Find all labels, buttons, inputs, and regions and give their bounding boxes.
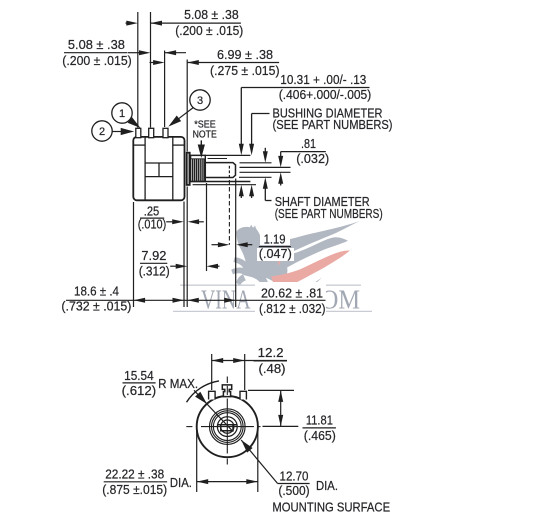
bushing top extension — [191, 154, 251, 156]
svg-text:6.99 ± .38: 6.99 ± .38 — [217, 47, 273, 62]
see note arrow — [200, 140, 202, 146]
red accent near chest — [273, 240, 287, 266]
svg-text:20.62 ± .81: 20.62 ± .81 — [261, 286, 323, 301]
watermark rule bottom — [173, 310, 372, 312]
svg-text:(.032): (.032) — [296, 151, 329, 166]
svg-text:12.2: 12.2 — [258, 345, 284, 360]
10.31 dim verticals and arrows — [240, 88, 242, 146]
12.2 dimension line — [212, 360, 287, 362]
12.70 leader — [241, 440, 277, 484]
10.31 bracket line — [241, 87, 369, 89]
main circle — [197, 396, 258, 457]
svg-text:18.6 ± .4: 18.6 ± .4 — [74, 284, 119, 298]
slot depth dashed extension — [228, 180, 230, 245]
svg-text:3: 3 — [197, 95, 203, 107]
horse body — [231, 225, 292, 300]
svg-text:(.200 ± .015): (.200 ± .015) — [62, 53, 132, 68]
svg-text:(.047): (.047) — [259, 246, 292, 261]
svg-text:(.500): (.500) — [278, 483, 309, 498]
R max arc — [187, 381, 220, 402]
key tab — [222, 385, 231, 397]
svg-text:(.200 ± .015): (.200 ± .015) — [175, 23, 243, 38]
wing swoosh red — [271, 250, 350, 293]
lower extension lines — [133, 202, 135, 307]
svg-text:1: 1 — [119, 108, 125, 120]
right tab — [240, 391, 246, 399]
wing swoosh 1 (gray top) — [261, 221, 360, 262]
svg-text:(SEE PART NUMBERS): (SEE PART NUMBERS) — [273, 117, 393, 132]
.25 dimension — [140, 217, 164, 219]
svg-text:(.612): (.612) — [122, 383, 157, 398]
strap cut left — [133, 144, 145, 146]
svg-text:(.010): (.010) — [138, 217, 167, 232]
extension lines from pins up — [137, 12, 139, 128]
bushing bottom extension — [191, 181, 251, 183]
7.92 dimension — [140, 262, 167, 264]
shaft bottom extension — [239, 176, 272, 178]
svg-text:DIA.: DIA. — [316, 478, 338, 493]
top dimension row 3 : 6.99 between C and bushing face — [150, 62, 154, 64]
svg-text:2: 2 — [99, 126, 105, 138]
shaft slot — [217, 424, 237, 426]
body right strap — [172, 137, 174, 200]
watermark rule top — [180, 284, 361, 286]
bushing diameter bracket — [252, 113, 270, 115]
shaft diameter leader arrows — [264, 148, 266, 153]
leader circle 1 — [112, 103, 132, 123]
svg-text:5.08 ± .38: 5.08 ± .38 — [68, 37, 125, 52]
svg-text:(.406+.000/-.005): (.406+.000/-.005) — [279, 87, 372, 102]
watermark pegasus logo — [173, 221, 372, 315]
left tab — [209, 391, 216, 399]
leader circle 3 — [190, 90, 210, 110]
1.19 dimension — [212, 244, 219, 246]
body outline — [133, 137, 184, 200]
thin gray swoosh under red — [290, 278, 322, 300]
center window top — [145, 162, 173, 164]
terminal pin 3 — [163, 128, 168, 137]
extension lines right of bushing/shaft — [191, 155, 291, 184]
svg-text:.81: .81 — [301, 136, 316, 151]
svg-text:12.70: 12.70 — [280, 468, 309, 483]
svg-text:(.812 ± .032): (.812 ± .032) — [259, 301, 326, 316]
centerline vertical — [226, 377, 228, 465]
11.81 bottom extension — [263, 425, 299, 427]
shaft top extension — [240, 162, 272, 164]
svg-text:R MAX.: R MAX. — [158, 376, 198, 391]
bottom dimension row 18.6 / 20.62 — [66, 299, 326, 301]
svg-text:22.22 ± .38: 22.22 ± .38 — [105, 467, 164, 482]
R max leader — [194, 390, 233, 431]
svg-text:1.19: 1.19 — [264, 231, 286, 246]
bushing diameter leader arrows — [251, 114, 253, 146]
white mask under 1.19 text — [260, 231, 290, 245]
svg-text:(.48): (.48) — [259, 361, 286, 376]
svg-text:(.732 ± .015): (.732 ± .015) — [61, 300, 131, 314]
top dimension row 1 : 5.08 between lines A-B — [126, 22, 129, 24]
bushing rings — [210, 409, 246, 445]
svg-text:MOUNTING SURFACE: MOUNTING SURFACE — [272, 500, 390, 515]
center window divider — [158, 163, 160, 177]
lower dimension extension — [193, 184, 256, 186]
face plate — [186, 152, 191, 186]
shaft — [205, 163, 235, 178]
22.22 dimension line — [197, 481, 258, 483]
potentiometer body (side view) — [133, 137, 184, 200]
threaded bushing — [191, 155, 227, 181]
svg-text:(.465): (.465) — [304, 428, 336, 443]
22.22 extension lines — [196, 430, 198, 493]
strap cut right — [173, 144, 185, 146]
svg-text:5.08 ± .38: 5.08 ± .38 — [184, 7, 239, 22]
svg-text:(.875 ±.015): (.875 ±.015) — [102, 482, 167, 497]
wing swoosh 2 (gray) — [264, 237, 348, 274]
svg-text:11.81: 11.81 — [306, 413, 333, 428]
front view fraction bars — [254, 360, 288, 362]
svg-text:7.92: 7.92 — [141, 248, 166, 263]
svg-text:NOTE: NOTE — [193, 129, 217, 141]
11.81 dimension line — [280, 390, 282, 426]
svg-text:10.31 + .00/- .13: 10.31 + .00/- .13 — [280, 72, 366, 87]
terminal pin 1 — [136, 128, 141, 137]
bushing face extension up — [186, 60, 188, 152]
terminal pin 2 — [149, 128, 154, 137]
.81 fraction bar — [297, 151, 326, 153]
svg-text:15.54: 15.54 — [124, 368, 154, 383]
11.81 top extension — [248, 389, 294, 391]
top dimension row 2 : 5.08 between lines B-C — [64, 52, 128, 54]
svg-text:(.275 ± .015): (.275 ± .015) — [210, 63, 280, 78]
12.2 extension lines — [211, 354, 213, 390]
white mask under 20.62 text — [255, 282, 326, 319]
flat lower extension — [240, 171, 291, 173]
svg-text:(.312): (.312) — [139, 263, 170, 278]
shaft slot hidden line — [228, 166, 230, 178]
svg-text:DIA.: DIA. — [170, 475, 192, 490]
svg-text:(SEE PART NUMBERS): (SEE PART NUMBERS) — [275, 206, 383, 221]
centerline horizontal — [186, 426, 260, 428]
body left strap — [144, 137, 146, 200]
flat upper extension — [240, 166, 291, 168]
.81 dim arrows — [280, 152, 282, 157]
leader circle 2 — [92, 121, 112, 141]
center window bottom — [145, 176, 173, 178]
